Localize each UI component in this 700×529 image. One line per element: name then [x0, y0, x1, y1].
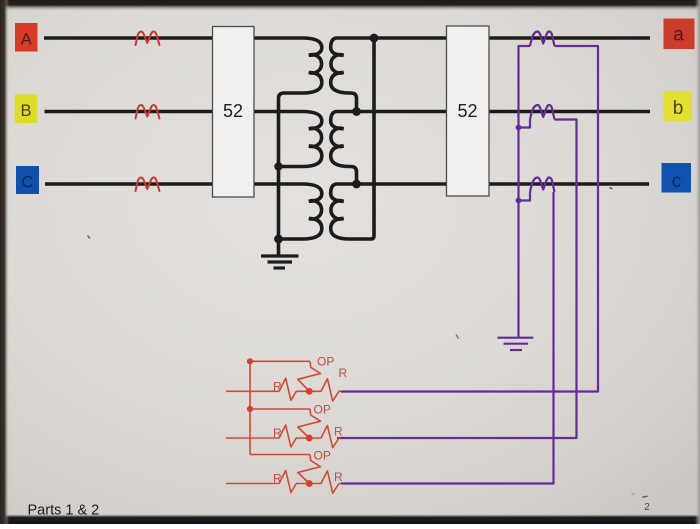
svg-text:52: 52: [457, 101, 477, 121]
svg-text:OP: OP: [314, 449, 331, 463]
svg-text:R: R: [273, 426, 282, 440]
svg-text:C: C: [22, 174, 34, 192]
svg-text:OP: OP: [317, 355, 334, 369]
svg-text:c: c: [672, 171, 682, 192]
svg-text:R: R: [339, 366, 348, 380]
svg-text:A: A: [21, 31, 32, 49]
svg-text:2: 2: [644, 502, 650, 513]
svg-text:R: R: [273, 472, 282, 486]
svg-text:R: R: [334, 470, 343, 484]
svg-text:OP: OP: [314, 403, 331, 417]
svg-text:B: B: [20, 102, 31, 120]
svg-text:b: b: [673, 98, 684, 119]
svg-text:R: R: [273, 380, 282, 394]
svg-text:52: 52: [223, 101, 243, 121]
svg-text:R: R: [334, 425, 343, 439]
svg-text:a: a: [673, 25, 684, 46]
